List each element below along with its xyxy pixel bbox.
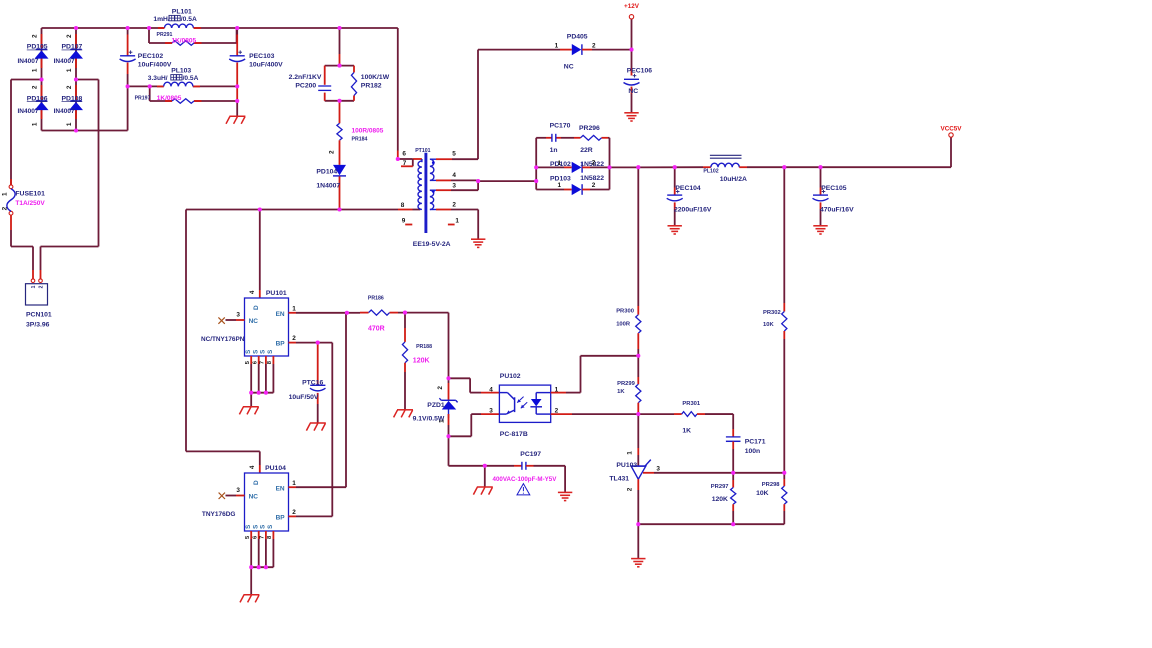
svg-text:2.2nF/1KV: 2.2nF/1KV bbox=[289, 74, 322, 81]
svg-text:PD106: PD106 bbox=[27, 95, 48, 102]
svg-text:22R: 22R bbox=[580, 147, 593, 154]
svg-text:TNY176DG: TNY176DG bbox=[202, 511, 236, 518]
svg-text:NC: NC bbox=[564, 64, 574, 71]
svg-text:PU104: PU104 bbox=[265, 465, 286, 472]
svg-text:PD107: PD107 bbox=[62, 44, 83, 51]
svg-text:8: 8 bbox=[267, 535, 273, 539]
svg-text:PEC104: PEC104 bbox=[675, 185, 701, 192]
svg-text:1: 1 bbox=[558, 160, 562, 167]
svg-text:PU103: PU103 bbox=[616, 462, 637, 469]
svg-text:7: 7 bbox=[403, 160, 407, 167]
svg-text:1: 1 bbox=[31, 68, 38, 72]
svg-text:8: 8 bbox=[401, 202, 405, 209]
svg-text:6: 6 bbox=[402, 151, 406, 158]
svg-text:T1A/250V: T1A/250V bbox=[15, 200, 45, 207]
svg-text:D: D bbox=[253, 305, 260, 310]
svg-text:1: 1 bbox=[66, 68, 73, 72]
svg-text:1: 1 bbox=[555, 42, 559, 49]
svg-text:PR298: PR298 bbox=[762, 482, 781, 488]
svg-text:3: 3 bbox=[236, 312, 240, 319]
svg-text:1: 1 bbox=[555, 386, 559, 393]
svg-text:1: 1 bbox=[558, 182, 562, 189]
svg-text:NC: NC bbox=[249, 493, 259, 500]
svg-text:IN4007: IN4007 bbox=[54, 58, 75, 65]
svg-text:PR297: PR297 bbox=[711, 484, 729, 490]
svg-text:1: 1 bbox=[31, 285, 37, 288]
svg-text:PEC103: PEC103 bbox=[249, 53, 275, 60]
svg-text:1K: 1K bbox=[682, 427, 691, 434]
svg-text:470R: 470R bbox=[368, 326, 385, 333]
svg-text:PR291: PR291 bbox=[157, 32, 173, 38]
svg-text:2: 2 bbox=[31, 34, 38, 38]
svg-text:IN4007: IN4007 bbox=[54, 108, 75, 115]
svg-text:2: 2 bbox=[627, 487, 634, 491]
svg-text:1: 1 bbox=[438, 419, 445, 423]
svg-text:1n: 1n bbox=[550, 147, 558, 154]
svg-text:1N4007: 1N4007 bbox=[316, 183, 340, 190]
svg-text:EN: EN bbox=[276, 485, 285, 492]
svg-text:BP: BP bbox=[276, 341, 286, 348]
svg-text:470uF/16V: 470uF/16V bbox=[820, 207, 854, 214]
svg-text:2: 2 bbox=[66, 85, 73, 89]
svg-text:1: 1 bbox=[66, 122, 73, 126]
svg-text:PEC102: PEC102 bbox=[138, 53, 164, 60]
svg-text:PCN101: PCN101 bbox=[26, 311, 52, 318]
svg-text:2: 2 bbox=[328, 150, 335, 154]
svg-text:PC197: PC197 bbox=[520, 451, 541, 458]
svg-text:PL103: PL103 bbox=[171, 68, 191, 75]
svg-text:PR186: PR186 bbox=[368, 296, 384, 302]
svg-text:PD105: PD105 bbox=[27, 44, 48, 51]
svg-text:3: 3 bbox=[236, 487, 240, 494]
svg-text:1: 1 bbox=[627, 451, 634, 455]
svg-text:PR301: PR301 bbox=[682, 401, 701, 407]
svg-text:PD405: PD405 bbox=[567, 34, 588, 41]
svg-text:8: 8 bbox=[267, 360, 273, 364]
svg-text:1K: 1K bbox=[617, 389, 625, 395]
svg-text:S: S bbox=[260, 525, 267, 529]
svg-text:PU102: PU102 bbox=[500, 373, 521, 380]
svg-text:PR300: PR300 bbox=[616, 308, 634, 314]
svg-text:10uH/2A: 10uH/2A bbox=[720, 176, 747, 183]
svg-text:IN4007: IN4007 bbox=[18, 58, 39, 65]
svg-text:PD108: PD108 bbox=[62, 95, 83, 102]
svg-text:7: 7 bbox=[260, 361, 266, 364]
svg-text:2: 2 bbox=[292, 509, 296, 516]
svg-text:NC: NC bbox=[249, 318, 259, 325]
svg-text:1: 1 bbox=[455, 217, 459, 224]
svg-text:4: 4 bbox=[452, 172, 456, 179]
svg-text:10uF/50V: 10uF/50V bbox=[289, 394, 319, 401]
svg-text:5: 5 bbox=[245, 360, 251, 364]
svg-text:S: S bbox=[267, 350, 274, 354]
svg-text:PR197: PR197 bbox=[135, 96, 151, 102]
svg-text:1K/0805: 1K/0805 bbox=[172, 38, 197, 45]
svg-text:2: 2 bbox=[592, 42, 596, 49]
svg-text:EE19-5V-2A: EE19-5V-2A bbox=[413, 241, 451, 248]
svg-text:1: 1 bbox=[31, 122, 38, 126]
svg-text:2: 2 bbox=[452, 202, 456, 209]
svg-text:2: 2 bbox=[292, 335, 296, 342]
svg-text:/0.5A: /0.5A bbox=[183, 75, 199, 82]
svg-text:3: 3 bbox=[452, 182, 456, 189]
svg-text:PU101: PU101 bbox=[266, 290, 287, 297]
svg-text:2: 2 bbox=[555, 407, 559, 414]
svg-text:D: D bbox=[253, 480, 260, 485]
svg-text:400VAC-100pF-M-Y5V: 400VAC-100pF-M-Y5V bbox=[493, 476, 558, 483]
svg-text:PR296: PR296 bbox=[579, 125, 600, 132]
svg-text:PL101: PL101 bbox=[172, 9, 192, 16]
svg-text:/0.5A: /0.5A bbox=[181, 16, 197, 23]
svg-text:4: 4 bbox=[249, 465, 256, 469]
svg-text:2: 2 bbox=[31, 85, 38, 89]
svg-text:1: 1 bbox=[292, 305, 296, 312]
svg-text:2: 2 bbox=[66, 34, 73, 38]
svg-text:IN4007: IN4007 bbox=[18, 108, 39, 115]
svg-text:S: S bbox=[253, 525, 260, 529]
svg-text:S: S bbox=[260, 350, 267, 354]
svg-text:120K: 120K bbox=[712, 496, 728, 503]
svg-text:PR302: PR302 bbox=[763, 310, 781, 316]
svg-text:S: S bbox=[245, 525, 252, 529]
svg-text:1: 1 bbox=[1, 192, 8, 196]
svg-text:5: 5 bbox=[245, 535, 251, 539]
svg-text:120K: 120K bbox=[413, 358, 430, 365]
svg-text:PD104: PD104 bbox=[316, 168, 337, 175]
svg-text:PC171: PC171 bbox=[745, 439, 766, 446]
svg-text:4: 4 bbox=[489, 386, 493, 393]
svg-text:3: 3 bbox=[489, 407, 493, 414]
svg-text:EN: EN bbox=[276, 311, 285, 318]
svg-text:9: 9 bbox=[402, 217, 406, 224]
svg-text:100R: 100R bbox=[616, 322, 631, 328]
svg-text:PR184: PR184 bbox=[352, 137, 368, 143]
svg-text:2200uF/16V: 2200uF/16V bbox=[674, 207, 712, 214]
svg-text:1K/0805: 1K/0805 bbox=[157, 95, 182, 102]
svg-text:7: 7 bbox=[260, 536, 266, 539]
svg-text:TL431: TL431 bbox=[609, 475, 629, 482]
svg-text:PC-817B: PC-817B bbox=[500, 431, 528, 438]
svg-text:PEC105: PEC105 bbox=[821, 185, 847, 192]
svg-text:PR182: PR182 bbox=[361, 83, 382, 90]
svg-text:2: 2 bbox=[592, 160, 596, 167]
svg-text:S: S bbox=[245, 350, 252, 354]
svg-text:6: 6 bbox=[253, 360, 259, 364]
svg-text:PTC16: PTC16 bbox=[302, 379, 323, 386]
svg-text:PT101: PT101 bbox=[415, 148, 430, 154]
svg-text:2: 2 bbox=[437, 386, 444, 390]
svg-text:1: 1 bbox=[292, 480, 296, 487]
svg-text:1N5822: 1N5822 bbox=[580, 175, 604, 182]
svg-text:PL102: PL102 bbox=[703, 169, 718, 175]
svg-text:S: S bbox=[267, 525, 274, 529]
svg-text:PC170: PC170 bbox=[550, 122, 571, 129]
svg-text:BP: BP bbox=[276, 514, 286, 521]
svg-text:S: S bbox=[253, 350, 260, 354]
svg-text:+12V: +12V bbox=[624, 3, 640, 10]
svg-text:10uF/400V: 10uF/400V bbox=[249, 61, 283, 68]
svg-text:NC: NC bbox=[628, 88, 638, 95]
svg-text:3P/3.96: 3P/3.96 bbox=[26, 321, 50, 328]
svg-text:FUSE101: FUSE101 bbox=[15, 191, 45, 198]
svg-text:2: 2 bbox=[38, 285, 44, 288]
svg-text:2: 2 bbox=[1, 206, 8, 210]
svg-text:3: 3 bbox=[656, 466, 660, 473]
svg-text:100R/0805: 100R/0805 bbox=[352, 128, 384, 135]
svg-text:1mH/: 1mH/ bbox=[153, 16, 169, 23]
svg-text:10K: 10K bbox=[756, 490, 769, 497]
svg-text:NC/TNY176PN: NC/TNY176PN bbox=[201, 336, 245, 343]
svg-text:3.3uH/: 3.3uH/ bbox=[148, 75, 168, 82]
svg-text:6: 6 bbox=[253, 535, 259, 539]
svg-text:2: 2 bbox=[592, 182, 596, 189]
svg-text:100K/1W: 100K/1W bbox=[361, 74, 390, 81]
svg-text:PZD1: PZD1 bbox=[427, 402, 445, 409]
svg-text:VCC5V: VCC5V bbox=[941, 126, 963, 133]
svg-text:10uF/400V: 10uF/400V bbox=[138, 61, 172, 68]
svg-text:5: 5 bbox=[452, 151, 456, 158]
svg-text:10K: 10K bbox=[763, 322, 774, 328]
svg-text:PR188: PR188 bbox=[416, 344, 432, 350]
svg-text:PC200: PC200 bbox=[295, 83, 316, 90]
svg-text:4: 4 bbox=[249, 290, 256, 294]
svg-text:100n: 100n bbox=[745, 448, 761, 455]
svg-text:PR299: PR299 bbox=[617, 381, 636, 387]
svg-text:PEC106: PEC106 bbox=[627, 68, 653, 75]
